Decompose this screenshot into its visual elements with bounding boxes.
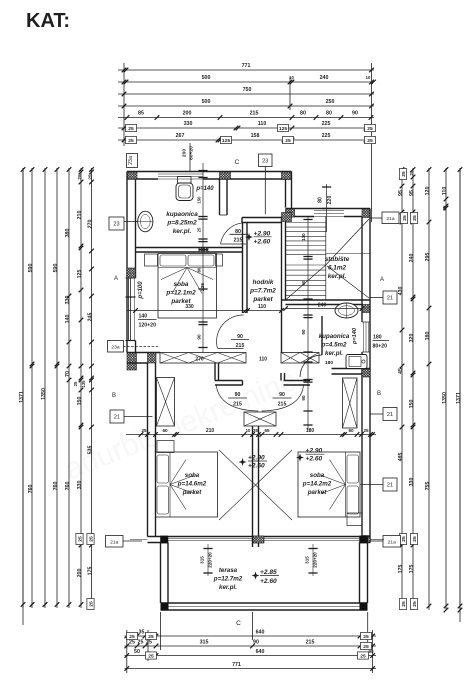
top wall pillar hatches <box>127 172 137 179</box>
svg-text:p=14.2m2: p=14.2m2 <box>302 481 332 488</box>
svg-text:330: 330 <box>77 481 83 490</box>
interior dim line soba <box>128 304 284 313</box>
svg-text:250: 250 <box>326 99 335 105</box>
svg-text:soba: soba <box>174 281 189 288</box>
svg-text:p=140: p=140 <box>352 327 358 345</box>
svg-text:parket: parket <box>252 296 273 303</box>
lower-left door label <box>228 392 247 408</box>
svg-text:1371: 1371 <box>19 391 25 403</box>
svg-text:25: 25 <box>77 174 82 180</box>
bathroom label <box>166 211 198 235</box>
svg-text:150: 150 <box>77 397 83 406</box>
staircase west wall <box>282 217 286 353</box>
svg-text:25: 25 <box>128 138 134 144</box>
svg-text:25: 25 <box>363 634 369 640</box>
svg-text:315: 315 <box>200 556 205 564</box>
svg-text:120+20: 120+20 <box>139 323 157 329</box>
svg-text:soba: soba <box>185 472 200 479</box>
vertical dim chain x308 <box>301 217 313 431</box>
bathroom sink <box>136 211 153 232</box>
svg-text:23a: 23a <box>128 156 134 165</box>
label box 21a right-top <box>371 217 383 219</box>
svg-text:180: 180 <box>325 360 333 366</box>
svg-text:330: 330 <box>185 304 194 310</box>
svg-text:125: 125 <box>77 270 83 279</box>
terrace door dim right <box>305 544 318 576</box>
label box 23a top-left <box>127 154 138 168</box>
svg-text:215: 215 <box>306 640 315 646</box>
staircase direction diagonals <box>286 219 370 300</box>
svg-text:21: 21 <box>387 412 393 418</box>
dim 240 <box>283 303 364 311</box>
svg-text:ker.pl.: ker.pl. <box>328 273 347 280</box>
svg-text:21: 21 <box>387 296 393 302</box>
p=100 label <box>138 281 144 300</box>
lower-left bed <box>156 452 218 517</box>
svg-text:25: 25 <box>88 601 94 607</box>
window dim 80/220 <box>318 184 334 232</box>
svg-text:240: 240 <box>409 254 415 263</box>
svg-text:90: 90 <box>352 111 358 117</box>
window label 180/80+20 <box>373 335 390 350</box>
corridor wall stubs above bedroom doors <box>215 363 310 385</box>
svg-text:C: C <box>236 620 241 627</box>
left block boxed 25s <box>76 534 84 545</box>
bathroom toilet <box>176 177 193 201</box>
svg-text:+2.60: +2.60 <box>248 462 265 469</box>
svg-text:90: 90 <box>301 395 306 401</box>
svg-text:150: 150 <box>197 196 202 204</box>
right dimension block <box>398 167 462 622</box>
svg-text:25: 25 <box>128 126 134 132</box>
level marker hodnik <box>245 230 272 245</box>
staircase south wall <box>282 300 371 305</box>
lower-right door label <box>273 392 292 408</box>
svg-text:215: 215 <box>234 237 243 243</box>
svg-text:110: 110 <box>258 121 267 127</box>
svg-text:25: 25 <box>77 536 83 542</box>
svg-text:25: 25 <box>73 381 78 386</box>
svg-text:A: A <box>114 276 118 282</box>
terrace side walls <box>161 543 368 604</box>
svg-text:45: 45 <box>398 368 404 374</box>
right wall pillar hatches <box>362 369 370 377</box>
svg-text:p=7.7m2: p=7.7m2 <box>249 288 276 295</box>
svg-text:90: 90 <box>301 280 306 285</box>
svg-text:23: 23 <box>113 222 119 228</box>
lower-left soba label <box>177 472 207 496</box>
svg-text:65: 65 <box>264 428 270 433</box>
svg-text:10: 10 <box>246 428 251 433</box>
svg-text:270: 270 <box>88 220 94 229</box>
svg-text:330: 330 <box>409 478 415 487</box>
label box 21 right-3 <box>361 484 384 486</box>
kupaonica door arc <box>300 355 322 377</box>
svg-text:p=100: p=100 <box>138 281 144 300</box>
svg-text:125: 125 <box>279 126 287 132</box>
svg-text:225: 225 <box>322 121 331 127</box>
svg-text:6.1m2: 6.1m2 <box>328 265 347 272</box>
svg-text:25: 25 <box>146 640 152 646</box>
lower X-wall right vertical <box>343 378 358 428</box>
staircase landing edge <box>326 253 370 255</box>
svg-text:485: 485 <box>398 453 404 462</box>
svg-text:225: 225 <box>322 133 331 139</box>
svg-text:175: 175 <box>409 565 415 574</box>
svg-text:21: 21 <box>387 483 393 489</box>
svg-text:90: 90 <box>235 392 241 398</box>
svg-text:330: 330 <box>184 121 193 127</box>
terrace door dim left <box>200 544 213 576</box>
svg-text:315: 315 <box>305 556 310 564</box>
svg-text:ker.pl.: ker.pl. <box>325 350 343 357</box>
svg-text:95: 95 <box>409 190 415 196</box>
bathroom door label <box>230 229 249 244</box>
svg-text:180: 180 <box>425 332 431 341</box>
svg-text:215: 215 <box>250 111 259 117</box>
svg-text:25: 25 <box>360 653 366 659</box>
svg-text:120: 120 <box>425 187 431 196</box>
svg-text:110: 110 <box>259 357 267 363</box>
svg-text:p=12.1m2: p=12.1m2 <box>165 290 196 297</box>
svg-text:21: 21 <box>114 415 120 421</box>
svg-text:C: C <box>235 159 240 166</box>
svg-text:+2.85: +2.85 <box>260 569 277 576</box>
svg-text:ker.pl.: ker.pl. <box>219 584 237 591</box>
level marker lower-left <box>239 455 268 470</box>
svg-text:25: 25 <box>412 536 418 542</box>
kupaonica 4.5 sink <box>335 303 358 318</box>
svg-text:25: 25 <box>197 227 202 232</box>
bedrooms south wall <box>130 537 384 543</box>
svg-text:245: 245 <box>88 313 94 322</box>
svg-text:590: 590 <box>28 264 34 273</box>
svg-text:210: 210 <box>206 428 215 434</box>
svg-text:25: 25 <box>138 640 144 646</box>
svg-text:25: 25 <box>285 138 291 144</box>
svg-text:330: 330 <box>65 296 71 305</box>
svg-text:90: 90 <box>368 649 374 654</box>
left wall pillar hatches <box>127 268 136 278</box>
wall between soba and hodnik <box>243 223 248 314</box>
lower-left bedroom door arc <box>216 385 258 411</box>
bathroom south wall <box>136 248 243 253</box>
svg-text:95: 95 <box>398 190 404 196</box>
hodnik north wall band <box>242 218 282 223</box>
svg-text:640: 640 <box>256 649 265 655</box>
svg-text:+2.60: +2.60 <box>306 455 323 462</box>
svg-text:1371: 1371 <box>456 392 462 404</box>
svg-text:60+20: 60+20 <box>189 146 195 160</box>
svg-text:ker.pl.: ker.pl. <box>173 228 192 235</box>
kupaonica 4.5 label <box>319 333 350 357</box>
svg-text:parket: parket <box>182 489 203 496</box>
svg-text:25: 25 <box>367 126 373 132</box>
left dimension block <box>19 167 94 625</box>
soba 12.1 wardrobe row <box>145 254 223 266</box>
outer wall right <box>362 209 370 543</box>
svg-text:295: 295 <box>425 253 431 262</box>
svg-text:215: 215 <box>236 343 245 349</box>
bathroom door 80/215 <box>221 223 247 244</box>
lower-right bed <box>298 452 360 517</box>
bottom dimension block <box>125 612 377 673</box>
svg-text:25: 25 <box>401 601 407 607</box>
svg-text:125: 125 <box>222 138 230 144</box>
svg-text:535: 535 <box>88 446 94 455</box>
svg-text:1350: 1350 <box>41 388 47 400</box>
right block boxed 25s <box>399 169 407 180</box>
svg-text:25: 25 <box>412 215 418 221</box>
svg-text:80: 80 <box>318 197 324 203</box>
svg-text:215: 215 <box>233 402 242 408</box>
svg-text:240: 240 <box>318 303 327 309</box>
vertical dim chain x203 <box>197 163 208 352</box>
svg-text:200: 200 <box>77 569 83 578</box>
label box 23 left <box>124 221 143 223</box>
svg-text:+2.60: +2.60 <box>254 238 271 245</box>
lower-left bed bench <box>157 441 174 453</box>
soba 12.1 door 90/215 <box>217 315 244 349</box>
horizontal dim line y434.5 <box>126 428 376 437</box>
svg-text:25: 25 <box>148 653 154 659</box>
outer wall top <box>127 172 292 180</box>
svg-text:80+20: 80+20 <box>373 344 388 350</box>
svg-text:175: 175 <box>398 565 404 574</box>
svg-text:25: 25 <box>129 640 135 646</box>
svg-text:21a: 21a <box>386 216 394 222</box>
svg-text:35: 35 <box>139 630 145 636</box>
svg-text:p=14.6m2: p=14.6m2 <box>177 481 207 488</box>
svg-text:25: 25 <box>412 601 418 607</box>
svg-text:25: 25 <box>409 170 414 176</box>
svg-text:760: 760 <box>65 482 71 491</box>
svg-text:21a: 21a <box>388 539 396 545</box>
svg-text:380: 380 <box>65 229 71 238</box>
svg-text:+2.90: +2.90 <box>248 455 265 462</box>
svg-text:158: 158 <box>251 133 260 139</box>
svg-text:755: 755 <box>425 482 431 491</box>
kupaonica 4.5 partition <box>322 316 370 374</box>
svg-text:10: 10 <box>289 75 294 80</box>
svg-text:320: 320 <box>409 334 415 343</box>
svg-text:35: 35 <box>253 428 258 433</box>
svg-text:p=8.25m2: p=8.25m2 <box>166 220 197 227</box>
svg-text:25: 25 <box>367 138 373 144</box>
label box 21a left <box>123 540 142 542</box>
corridor south X-wall segment right <box>281 353 319 364</box>
svg-text:110: 110 <box>258 304 266 310</box>
svg-text:210: 210 <box>77 211 83 220</box>
svg-text:A: A <box>380 277 384 283</box>
svg-text:90: 90 <box>197 334 202 340</box>
lower-left outer wall <box>148 363 156 537</box>
washing machine <box>346 355 367 369</box>
X pillar between doors <box>244 412 276 426</box>
svg-text:180: 180 <box>373 335 382 341</box>
soba 12.1 bed <box>158 254 217 319</box>
corridor south X-wall segment 270 <box>160 353 246 364</box>
svg-text:60: 60 <box>348 428 354 433</box>
svg-text:80: 80 <box>197 267 202 272</box>
svg-text:21a: 21a <box>110 539 118 545</box>
terrace corner blocks <box>161 603 169 611</box>
svg-text:590: 590 <box>53 264 59 273</box>
svg-text:+2.90: +2.90 <box>254 230 271 237</box>
svg-text:kupaonica: kupaonica <box>319 333 350 340</box>
svg-text:150: 150 <box>409 400 415 409</box>
svg-text:80: 80 <box>300 111 306 117</box>
window label 140/120+20 <box>138 314 157 329</box>
lower-right bed bench <box>347 513 362 526</box>
svg-text:p=140: p=140 <box>195 186 214 192</box>
label box 21 left <box>124 416 153 418</box>
svg-text:KAT:: KAT: <box>26 10 70 32</box>
svg-text:70: 70 <box>65 371 71 377</box>
svg-text:85: 85 <box>138 111 144 117</box>
label box 21 right-2 <box>371 413 384 415</box>
stubiste label <box>325 256 350 280</box>
svg-text:23a: 23a <box>111 344 119 350</box>
svg-text:110: 110 <box>442 187 448 196</box>
svg-text:175: 175 <box>88 567 94 576</box>
svg-text:750: 750 <box>243 87 252 93</box>
soba 12.1 label <box>165 281 196 305</box>
svg-text:80: 80 <box>326 111 332 117</box>
lower-right soba label <box>302 472 332 496</box>
svg-text:500: 500 <box>202 75 211 81</box>
outer wall left <box>126 172 136 353</box>
svg-text:25: 25 <box>442 205 447 211</box>
svg-text:200: 200 <box>183 111 192 117</box>
label box 21a right-bottom <box>371 540 384 542</box>
svg-text:B: B <box>112 393 116 399</box>
svg-text:220: 220 <box>327 196 333 205</box>
top dimension block <box>118 63 376 222</box>
svg-text:terasa: terasa <box>219 567 238 574</box>
hodnik label <box>249 279 276 303</box>
level marker terrace <box>252 569 280 585</box>
svg-text:760: 760 <box>28 485 34 494</box>
terrace south wall <box>161 603 368 610</box>
svg-text:220+20: 220+20 <box>313 552 318 568</box>
svg-text:hodnik: hodnik <box>253 279 274 286</box>
svg-text:220+20: 220+20 <box>208 552 213 568</box>
svg-text:270: 270 <box>195 357 204 363</box>
svg-text:200: 200 <box>182 149 188 157</box>
svg-text:315: 315 <box>200 640 209 646</box>
svg-text:135: 135 <box>81 380 86 388</box>
label box 23 top <box>264 167 266 215</box>
terrace label <box>213 567 243 591</box>
svg-text:430: 430 <box>398 287 404 296</box>
svg-text:240: 240 <box>320 75 329 81</box>
svg-text:23: 23 <box>262 158 268 164</box>
svg-text:10: 10 <box>366 75 371 80</box>
level marker lower-right <box>296 448 325 463</box>
svg-text:50: 50 <box>134 649 140 655</box>
svg-text:760: 760 <box>53 482 59 491</box>
svg-text:B: B <box>377 391 381 397</box>
svg-text:90: 90 <box>253 640 259 646</box>
soba 12.1 door label <box>231 334 249 349</box>
p=140 rotated <box>352 327 358 345</box>
svg-text:640: 640 <box>256 630 265 636</box>
svg-text:110: 110 <box>301 233 306 241</box>
svg-text:25: 25 <box>401 536 407 542</box>
svg-text:+2.60: +2.60 <box>260 578 277 585</box>
svg-text:kupaonica: kupaonica <box>166 211 198 218</box>
staircase treads <box>286 217 326 301</box>
svg-text:267: 267 <box>176 133 185 139</box>
svg-text:soba: soba <box>310 472 325 479</box>
svg-text:25: 25 <box>401 171 407 177</box>
left step wall to lower part <box>127 353 160 364</box>
svg-text:180: 180 <box>306 428 315 434</box>
svg-text:140: 140 <box>65 315 71 324</box>
label box 21 right-1 <box>371 297 384 299</box>
outer wall top-right step <box>286 172 292 209</box>
svg-text:25: 25 <box>402 215 408 221</box>
svg-text:215: 215 <box>278 402 287 408</box>
svg-text:1350: 1350 <box>442 392 448 404</box>
svg-text:stubište: stubište <box>325 256 350 263</box>
svg-text:771: 771 <box>242 63 251 69</box>
bedrooms south wall pillars <box>161 536 169 543</box>
svg-text:140: 140 <box>139 314 148 320</box>
svg-text:60: 60 <box>162 428 168 433</box>
svg-text:500: 500 <box>202 99 211 105</box>
wall above staircase <box>286 209 371 217</box>
svg-text:25: 25 <box>88 174 93 180</box>
svg-text:p=12.7m2: p=12.7m2 <box>213 576 243 583</box>
svg-text:p=4.5m2: p=4.5m2 <box>321 342 347 349</box>
svg-text:25: 25 <box>141 428 147 433</box>
label box 23a left <box>123 346 158 348</box>
middle divider wall between bedrooms <box>219 426 292 547</box>
svg-text:parket: parket <box>307 489 328 496</box>
svg-text:+2.90: +2.90 <box>306 448 323 455</box>
lower-right bedroom door arc <box>262 385 304 411</box>
svg-text:771: 771 <box>232 662 241 668</box>
svg-text:25: 25 <box>88 536 94 542</box>
bathroom east wall <box>220 179 228 215</box>
window label 200/60+20 <box>182 143 195 171</box>
svg-text:25: 25 <box>363 428 369 433</box>
lower X-wall left vertical <box>157 378 175 427</box>
svg-text:90: 90 <box>301 329 306 335</box>
svg-text:90: 90 <box>279 392 285 398</box>
